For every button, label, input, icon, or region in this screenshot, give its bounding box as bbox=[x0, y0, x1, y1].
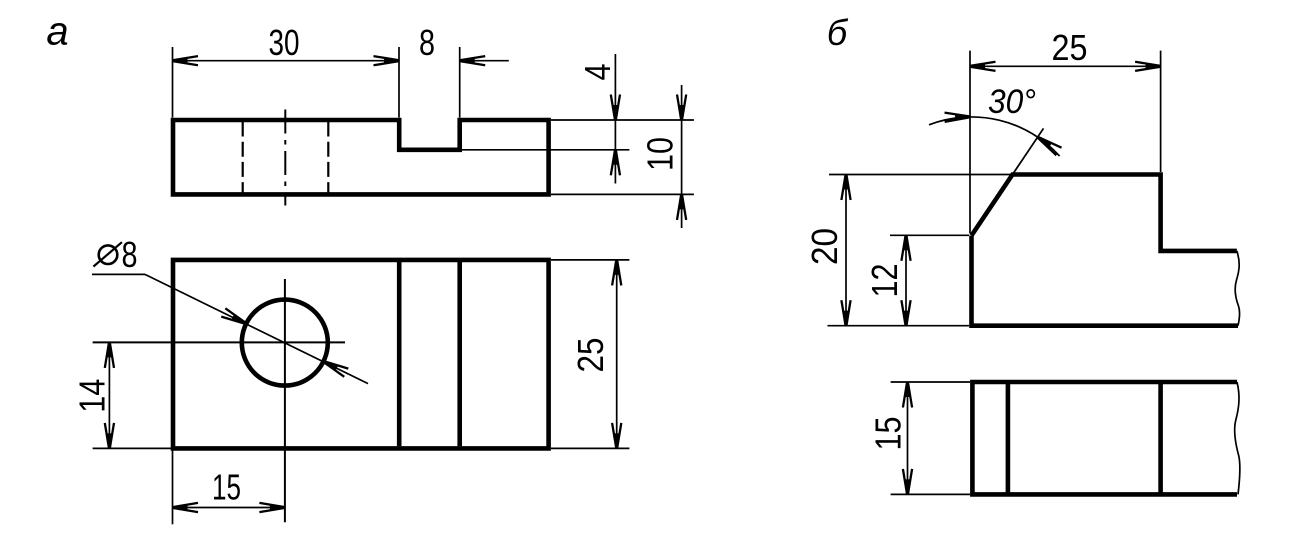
svg-text:25: 25 bbox=[570, 338, 611, 373]
arrow 15B top bbox=[903, 382, 912, 408]
arrow 10 top (outside) bbox=[677, 95, 686, 121]
svg-text:12: 12 bbox=[864, 264, 905, 298]
dimension line 20 bbox=[845, 175, 847, 326]
break line (front view, freehand) bbox=[1235, 251, 1239, 326]
extension line 12 top bbox=[890, 234, 969, 236]
plan view notch right wall (thick) bbox=[457, 262, 462, 446]
angle arrow on chamfer line bbox=[1035, 133, 1061, 155]
arrow 25 bottom bbox=[612, 423, 621, 449]
svg-text:15: 15 bbox=[212, 467, 241, 508]
arrow dia8 upper (tip on circle, points inward) bbox=[221, 308, 248, 327]
extension line notch bottom right bbox=[460, 149, 630, 151]
svg-text:30°: 30° bbox=[988, 83, 1036, 121]
dimension line 10 (vertical) bbox=[681, 85, 683, 228]
arrow 15 right bbox=[259, 503, 285, 512]
arrow 14 top bbox=[105, 342, 114, 368]
svg-text:30: 30 bbox=[269, 22, 300, 63]
svg-text:14: 14 bbox=[72, 379, 113, 413]
arrow 10 bottom (outside) bbox=[677, 194, 686, 220]
center line of hole (front view) bbox=[284, 110, 286, 206]
dimension line 30 bbox=[173, 60, 400, 62]
svg-text:20: 20 bbox=[804, 228, 845, 265]
angle dimension arc 30deg bbox=[929, 117, 1060, 156]
part A plan view outline (thick) bbox=[173, 260, 549, 449]
extension line plan bottom right bbox=[551, 447, 629, 449]
extension line 15B top bbox=[891, 381, 970, 383]
arrow 25B right bbox=[1135, 62, 1161, 71]
svg-text:10: 10 bbox=[640, 137, 681, 171]
hidden line (hole left edge) bbox=[242, 122, 244, 194]
dimension line 4 (vertical) bbox=[614, 54, 616, 184]
dimension line 14 bbox=[108, 342, 110, 448]
extension line 20/12 bottom bbox=[828, 325, 970, 327]
svg-text:4: 4 bbox=[577, 64, 618, 81]
arrow 25 top bbox=[612, 260, 621, 286]
hidden line (hole right edge) bbox=[327, 122, 329, 194]
arrow dia8 lower (tip on circle, points inward) bbox=[321, 357, 348, 376]
bottom view line step projection (thick) bbox=[1158, 382, 1163, 494]
part B front view outline (thick) bbox=[972, 175, 1239, 326]
extension line left bottom (dim15) bbox=[172, 451, 174, 525]
hole horizontal center line bbox=[93, 341, 345, 343]
extension line bottom edge right bbox=[551, 193, 694, 195]
arrow 30 left bbox=[173, 56, 199, 65]
bottom view line chamfer projection (thick) bbox=[1006, 382, 1011, 494]
extension line right (dim 8) bbox=[459, 47, 461, 118]
dimension line 25 bbox=[616, 260, 618, 449]
arrow 12 top bbox=[901, 235, 910, 260]
arrow 8 right (outside) bbox=[460, 56, 486, 65]
extension line top edge right bbox=[551, 119, 694, 121]
extension line 25 right (part B) bbox=[1160, 51, 1162, 172]
part B bottom view outline (thick) bbox=[972, 380, 1237, 497]
arrow 4 bottom (outside) bbox=[611, 150, 620, 176]
arrow 20 bottom bbox=[841, 300, 850, 326]
svg-text:8: 8 bbox=[122, 234, 138, 275]
extension line mid (dims 30/8) bbox=[398, 47, 400, 118]
part A front view outline (thick) bbox=[173, 120, 549, 194]
dimension line 15 (part B) bbox=[907, 382, 909, 494]
extension line 25 left (part B) bbox=[969, 51, 971, 234]
arrow 15B bottom bbox=[903, 469, 912, 495]
dimension 8 tail line bbox=[460, 60, 509, 62]
angle arrow on vertical line bbox=[945, 112, 971, 122]
svg-text:8: 8 bbox=[419, 22, 435, 63]
arrow 30 right / 8 left bbox=[374, 56, 400, 65]
arrow 20 top bbox=[841, 175, 850, 201]
arrow 12 bottom bbox=[901, 300, 910, 326]
extension line 20 top bbox=[829, 174, 1011, 176]
leader shoulder line dia8 bbox=[92, 273, 145, 275]
svg-text:25: 25 bbox=[1052, 27, 1088, 68]
break line (bottom view, freehand) bbox=[1235, 382, 1240, 494]
arrow 15 left bbox=[173, 503, 199, 512]
dimension line 12 bbox=[905, 235, 907, 325]
hole vertical center line bbox=[284, 279, 286, 522]
extension line plan top right bbox=[551, 259, 629, 261]
svg-text:б: б bbox=[827, 12, 849, 53]
leader diagonal line dia8 bbox=[145, 274, 368, 383]
arrow 14 bottom bbox=[105, 423, 114, 449]
diameter symbol (circle+slash) bbox=[99, 245, 118, 264]
extension line left (dim 30) bbox=[172, 47, 174, 118]
arrow 25B left bbox=[970, 62, 996, 71]
plan view notch left wall (thick) bbox=[397, 262, 402, 446]
arrow 4 top (outside) bbox=[611, 95, 620, 121]
extension line 15B bottom bbox=[891, 493, 970, 495]
hole circle d8 (thick) bbox=[242, 300, 328, 386]
svg-text:15: 15 bbox=[868, 417, 909, 451]
chamfer extension thin line bbox=[1013, 128, 1044, 174]
dimension line 25 (part B) bbox=[970, 65, 1161, 67]
svg-text:а: а bbox=[46, 10, 68, 54]
dimension line 15 bbox=[173, 507, 285, 509]
extension line bottom edge left bbox=[93, 447, 171, 449]
